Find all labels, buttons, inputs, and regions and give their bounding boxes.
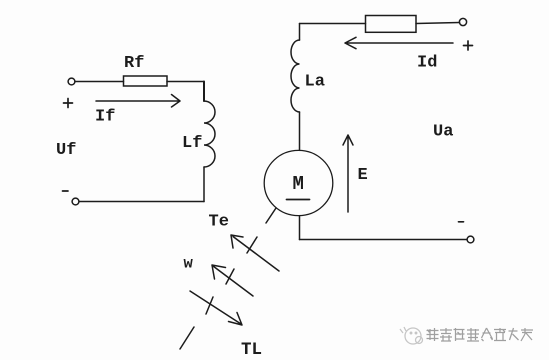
- wire La to motor: [299, 112, 301, 150]
- wire resistor Ra to corner: [300, 23, 366, 25]
- terminal right bottom (-): [467, 236, 474, 243]
- inductor Lf: [204, 101, 215, 167]
- speed arrow w: [212, 265, 253, 296]
- svg-text:Id: Id: [417, 54, 437, 73]
- plus sign right: [464, 41, 473, 50]
- torque arrow Te: [231, 235, 279, 271]
- wire top-left to resistor: [75, 81, 124, 83]
- watermark logo: [400, 327, 423, 344]
- plus sign left: [64, 99, 73, 108]
- svg-text:M: M: [293, 173, 304, 195]
- minus sign left: [63, 190, 69, 192]
- wire terminal to resistor Ra: [416, 23, 460, 24]
- motor M circle: [264, 150, 333, 215]
- terminal left top (+): [68, 78, 75, 85]
- wire bottom-right: [300, 239, 468, 241]
- motor underline: [287, 199, 310, 201]
- svg-text:TL: TL: [241, 340, 262, 360]
- shaft dashed line: [180, 208, 276, 349]
- wire Lf to bottom: [203, 167, 205, 202]
- wire corner down to Lf: [203, 82, 205, 102]
- current arrow Id: [345, 37, 453, 48]
- svg-text:Rf: Rf: [124, 54, 144, 73]
- svg-text:Lf: Lf: [182, 134, 202, 153]
- inductor La: [291, 40, 300, 112]
- resistor Rf: [124, 76, 168, 86]
- wire bottom-left: [79, 201, 204, 203]
- current arrow If: [96, 95, 180, 108]
- wire corner down to La: [299, 24, 301, 41]
- load torque arrow TL: [190, 291, 242, 325]
- resistor Ra: [366, 16, 417, 33]
- svg-text:If: If: [95, 108, 115, 127]
- svg-text:La: La: [305, 73, 325, 92]
- svg-text:w: w: [184, 255, 194, 273]
- terminal left bottom (-): [72, 198, 79, 205]
- svg-text:Uf: Uf: [56, 141, 76, 160]
- svg-text:E: E: [358, 166, 368, 185]
- terminal right top (+): [459, 18, 466, 25]
- svg-text:Te: Te: [209, 213, 229, 232]
- minus sign right: [459, 221, 464, 223]
- watermark text 海军的嵌入式之旅: [427, 328, 534, 341]
- wire motor to bottom: [299, 216, 301, 240]
- wire resistor Rf to corner: [167, 81, 204, 83]
- svg-text:Ua: Ua: [433, 123, 453, 142]
- emf arrow E: [343, 135, 353, 212]
